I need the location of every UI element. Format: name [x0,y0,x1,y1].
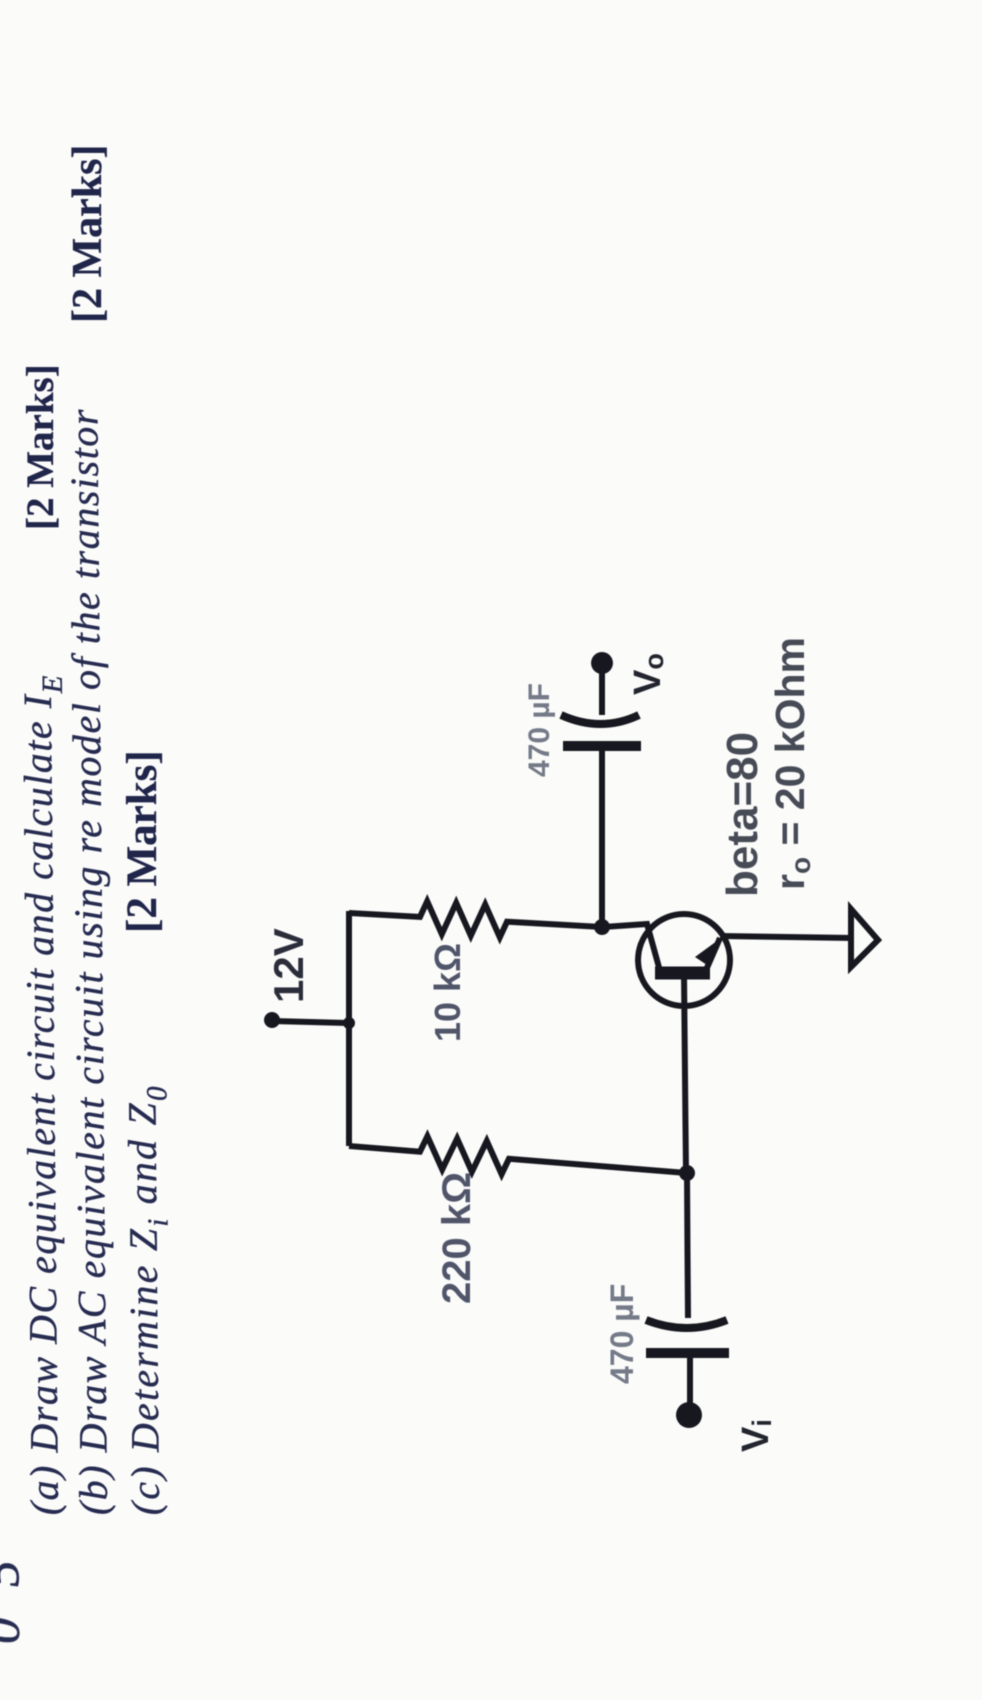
node collector junction [594,919,610,935]
question line (a) [18,674,75,1515]
capacitor C1 470uF input : curved plate [646,1320,727,1328]
transistor Q1 base bar [655,967,710,980]
page number fragment 05 [0,1530,28,1644]
svg-text:ro = 20 kOhm: ro = 20 kOhm [767,637,816,890]
wire base node to transistor base [684,973,686,1173]
transistor Q1 emitter arrow [695,938,721,967]
ground arrow (open arrowhead) [851,909,878,967]
marks (a) [21,364,60,530]
svg-text:beta=80: beta=80 [718,732,767,897]
wire output capacitor to Vo terminal [599,670,605,715]
wire emitter to ground arrow [720,936,853,938]
capacitor C2 470uF output : straight plate [563,741,641,751]
node base junction [679,1165,695,1181]
svg-text:10 kΩ: 10 kΩ [427,943,468,1042]
transistor Q1 collector lead [603,924,660,971]
svg-text:470 µF: 470 µF [604,1284,640,1384]
capacitor C2 470uF output : curved plate [561,715,639,724]
node Vo terminal [591,652,613,674]
wire trunk (supply rail) [346,911,352,1146]
junction trunk/12V [343,1017,355,1029]
svg-text:12V: 12V [265,928,312,1003]
node 12V supply terminal [264,1012,280,1028]
wire Vi terminal to input capacitor [687,1356,693,1406]
capacitor C1 470uF input : straight plate [646,1348,729,1358]
svg-text:Vi: Vi [735,1419,777,1452]
svg-text:Vo: Vo [627,653,669,695]
wire 12V terminal to trunk [272,1021,348,1023]
wire collector node to output capacitor [599,750,605,927]
node Vi terminal [676,1402,702,1428]
resistor R2 220kO (base branch) [349,1136,687,1174]
resistor R1 10kO (collector branch) [349,901,602,937]
question line (c) [122,1084,176,1515]
question line (b) [64,408,114,1516]
marks (b) [67,145,109,323]
svg-text:220 kΩ: 220 kΩ [435,1172,479,1304]
wire input capacitor to base node [687,1173,688,1318]
svg-text:470 µF: 470 µF [523,683,556,777]
marks (c) [121,750,164,933]
transistor Q1 emitter lead [706,938,720,970]
transistor Q1 circle [638,914,730,1006]
